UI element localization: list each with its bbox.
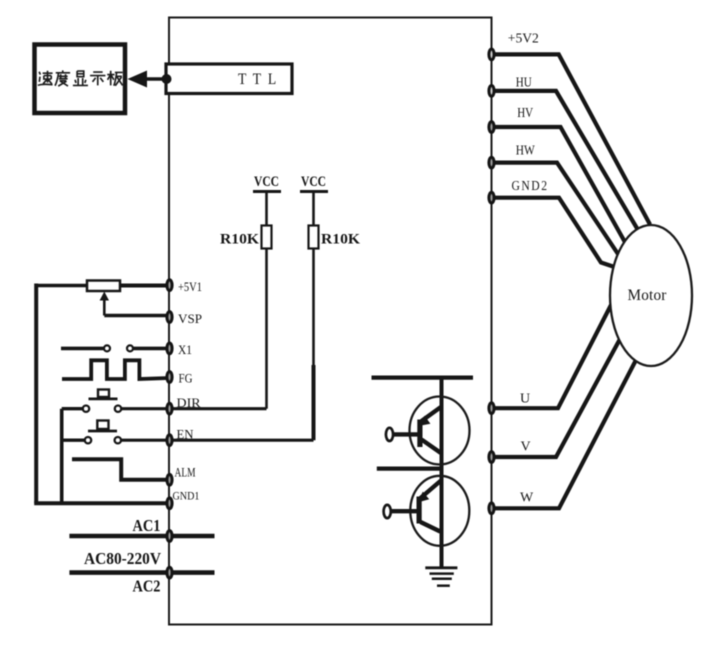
wire DIR right to pullup — [122, 407, 267, 410]
pin ALM — [167, 474, 172, 485]
wire potentiometer to +5V1 pin — [120, 284, 169, 288]
pin HV — [489, 122, 494, 133]
wire TTL to display board — [143, 77, 167, 80]
wire left rail (+5V1 to GND1) — [34, 284, 38, 504]
wire GND1 horizontal — [34, 501, 169, 505]
pin +5V1 — [167, 280, 172, 291]
pin X1 — [167, 343, 172, 354]
wire rail to potentiometer — [36, 284, 87, 288]
wire wiper to VSP pin — [104, 314, 169, 318]
pin AC2 — [167, 567, 172, 578]
pin FG — [167, 372, 172, 383]
wire U to motor — [492, 305, 612, 408]
wire HU to motor — [492, 91, 639, 230]
svg-text:AC1: AC1 — [133, 516, 161, 535]
display board box 速度显示板 — [35, 45, 126, 114]
pin DIR — [167, 403, 172, 414]
pushbutton DIR actuator — [98, 390, 109, 398]
AC2 supply line — [69, 570, 214, 575]
wire V to motor — [492, 339, 621, 457]
resistor R10K (right) — [309, 226, 319, 249]
svg-text:AC80-220V: AC80-220V — [84, 549, 161, 568]
svg-text:X1: X1 — [178, 342, 192, 357]
svg-text:VSP: VSP — [178, 311, 202, 326]
pushbutton DIR bar — [89, 397, 118, 400]
pin HU — [489, 86, 494, 97]
svg-text:DIR: DIR — [177, 395, 201, 410]
VCC supply 2 bar — [300, 190, 328, 193]
svg-text:VCC: VCC — [254, 174, 279, 190]
potentiometer wiper arrow — [103, 296, 106, 316]
switch X1 right lead — [133, 347, 169, 351]
pin GND1 — [167, 498, 172, 509]
VCC supply 1 bar — [253, 190, 281, 193]
wire R2 to EN net lower — [312, 365, 316, 440]
wire EN right to pullup — [121, 439, 313, 442]
svg-text:R10K: R10K — [321, 232, 361, 248]
pin U — [489, 403, 494, 414]
wire VCC1 to R1 — [265, 192, 268, 226]
pin HW — [489, 157, 494, 168]
motor M1 — [610, 225, 692, 366]
wire +5V2 to motor — [492, 54, 651, 224]
svg-text:HW: HW — [516, 144, 536, 159]
wire collector bus bar (top) — [372, 376, 474, 380]
svg-text:V: V — [521, 440, 531, 455]
transistor Q2 — [384, 476, 470, 546]
TTL box — [166, 64, 292, 94]
wire W to motor — [492, 360, 637, 508]
ALM step signal — [72, 459, 169, 480]
switch X1 terminal circles — [104, 345, 110, 351]
FG square wave signal — [62, 360, 169, 379]
wire R1 to DIR net — [265, 249, 268, 409]
pin V — [489, 452, 494, 463]
svg-text:HV: HV — [517, 106, 533, 121]
pin AC1 — [167, 531, 172, 542]
svg-text:Motor: Motor — [628, 287, 667, 304]
svg-text:FG: FG — [179, 371, 193, 386]
svg-text:VCC: VCC — [301, 174, 326, 190]
potentiometer body — [87, 281, 120, 292]
wire EN left — [62, 439, 85, 442]
wire GND2 to motor — [492, 198, 615, 267]
pushbutton DIR terminals — [83, 406, 89, 412]
svg-text:T T L: T T L — [238, 71, 278, 88]
pin EN — [167, 435, 172, 446]
pin +5V2 — [489, 49, 494, 60]
wire DIR left — [62, 407, 83, 410]
switch X1 left lead — [61, 347, 104, 351]
svg-text:U: U — [520, 392, 530, 407]
AC1 supply line — [69, 534, 214, 539]
pushbutton EN actuator — [97, 421, 108, 430]
pushbutton EN bar — [88, 430, 117, 433]
svg-text:R10K: R10K — [220, 232, 260, 248]
svg-text:AC2: AC2 — [133, 577, 161, 596]
wire transistor rail — [440, 378, 444, 568]
pin VSP — [167, 312, 172, 323]
svg-text:EN: EN — [177, 427, 195, 442]
wire emitter bar (middle) — [377, 467, 442, 471]
svg-text:HU: HU — [516, 76, 532, 91]
junction dot on board edge — [162, 74, 172, 84]
ground — [425, 568, 457, 586]
svg-text:ALM: ALM — [175, 466, 196, 480]
wire VCC2 to R2 — [312, 192, 315, 226]
controller board outline — [169, 18, 492, 625]
svg-text:W: W — [520, 491, 534, 506]
svg-text:GND2: GND2 — [512, 179, 549, 194]
wire HW to motor — [492, 163, 619, 254]
pushbutton EN terminals — [85, 437, 91, 443]
pin W — [489, 503, 494, 514]
svg-text:+5V1: +5V1 — [178, 279, 202, 294]
wire R2 to EN net upper — [312, 249, 315, 368]
resistor R10K (left) — [262, 226, 272, 249]
wire second rail DIR/EN to GND1 — [60, 409, 64, 504]
svg-text:GND1: GND1 — [173, 491, 200, 503]
pin GND2 — [489, 192, 494, 203]
display board label (Chinese glyph strokes) — [38, 70, 123, 86]
transistor Q1 — [386, 397, 470, 465]
arrowhead into display box — [128, 71, 148, 88]
svg-text:+5V2: +5V2 — [508, 32, 539, 47]
wire HV to motor — [492, 127, 627, 244]
